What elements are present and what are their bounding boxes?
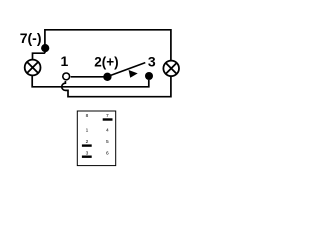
svg-text:7: 7	[106, 113, 109, 119]
svg-text:3: 3	[148, 54, 156, 70]
svg-text:7(-): 7(-)	[20, 30, 42, 46]
svg-text:2: 2	[86, 139, 89, 145]
svg-text:4: 4	[106, 128, 109, 134]
svg-text:6: 6	[106, 150, 109, 156]
svg-text:2(+): 2(+)	[94, 55, 118, 70]
svg-text:1: 1	[61, 53, 69, 69]
svg-text:8: 8	[86, 113, 89, 119]
svg-text:1: 1	[86, 128, 89, 134]
svg-text:5: 5	[106, 139, 109, 145]
